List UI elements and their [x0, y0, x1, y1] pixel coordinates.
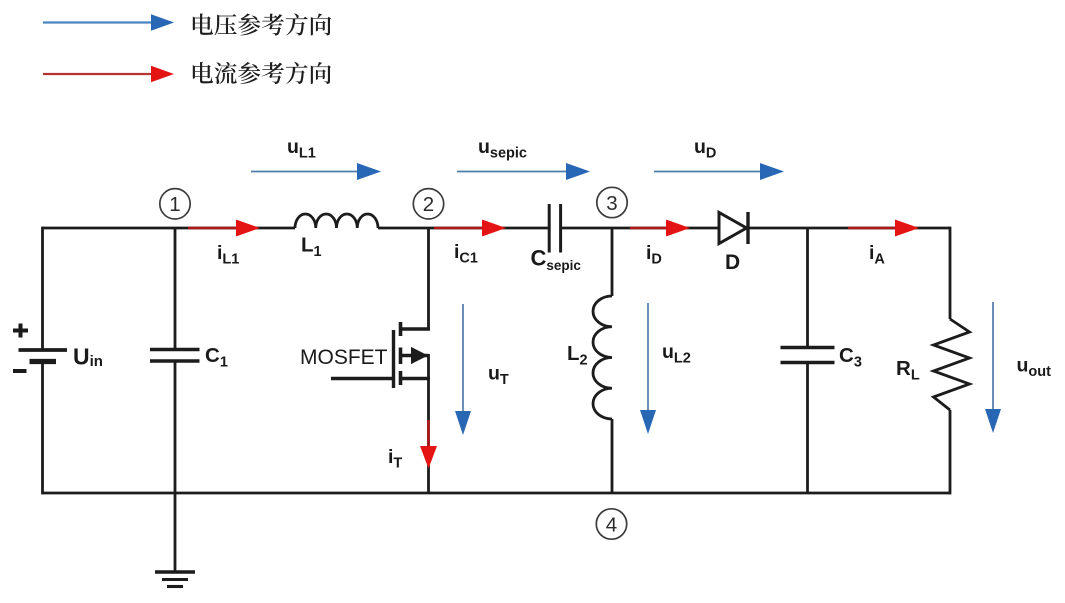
svg-text:uT: uT [488, 363, 509, 389]
svg-text:uL2: uL2 [662, 341, 691, 367]
svg-text:RL: RL [896, 357, 920, 384]
svg-text:uL1: uL1 [287, 136, 316, 162]
svg-text:Csepic: Csepic [531, 246, 582, 274]
svg-text:L2: L2 [567, 342, 588, 369]
svg-text:uD: uD [694, 136, 716, 162]
svg-text:2: 2 [423, 193, 434, 216]
svg-text:L1: L1 [301, 234, 322, 261]
svg-text:iA: iA [869, 242, 885, 268]
svg-text:1: 1 [169, 193, 180, 216]
svg-text:D: D [725, 251, 740, 274]
svg-text:3: 3 [606, 192, 617, 215]
svg-text:4: 4 [606, 513, 617, 536]
svg-text:uout: uout [1017, 355, 1052, 381]
svg-text:iL1: iL1 [217, 242, 239, 268]
svg-text:C1: C1 [205, 344, 228, 371]
svg-text:Uin: Uin [73, 344, 103, 371]
svg-text:iT: iT [388, 446, 402, 472]
svg-text:iC1: iC1 [454, 241, 478, 267]
svg-text:usepic: usepic [478, 136, 527, 162]
svg-text:C3: C3 [839, 344, 862, 371]
svg-text:MOSFET: MOSFET [300, 346, 388, 369]
svg-text:iD: iD [646, 242, 662, 268]
